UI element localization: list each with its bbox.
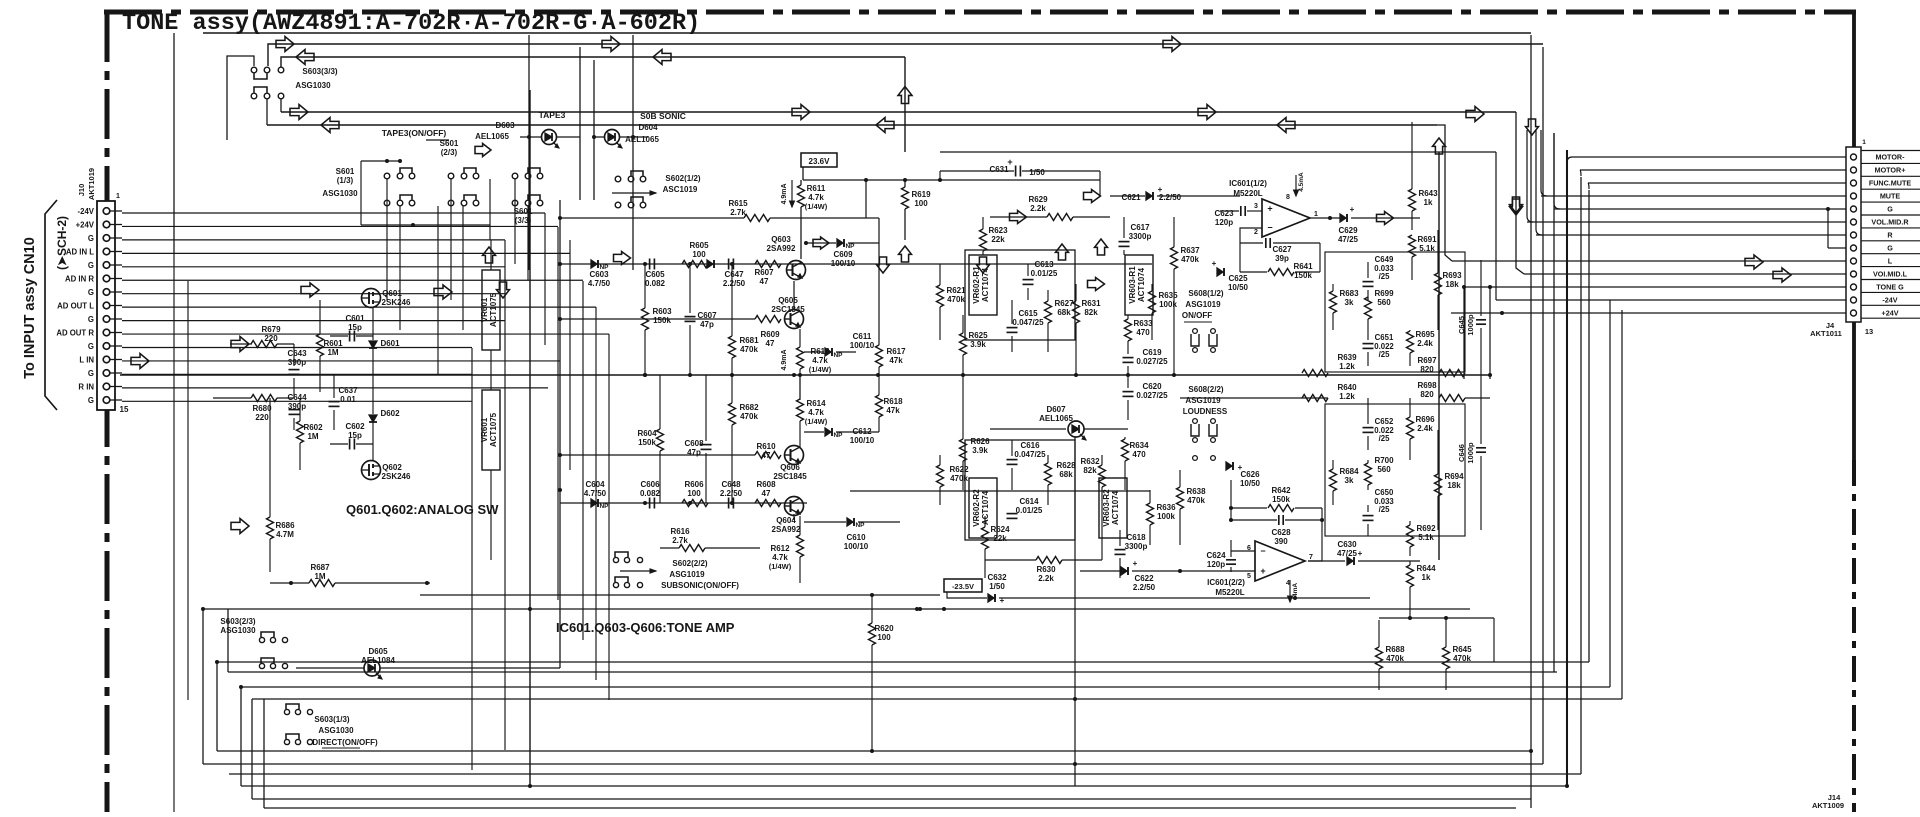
svg-text:NP: NP (845, 243, 855, 250)
svg-text:C627: C627 (1272, 245, 1292, 254)
svg-text:2SK246: 2SK246 (382, 298, 411, 307)
svg-text:-24V: -24V (1882, 296, 1897, 305)
svg-text:G: G (88, 234, 94, 243)
svg-text:R607: R607 (754, 268, 774, 277)
svg-text:47p: 47p (700, 320, 714, 329)
svg-text:R628: R628 (1056, 461, 1076, 470)
svg-text:VR601: VR601 (480, 417, 489, 442)
svg-text:R602: R602 (303, 423, 323, 432)
svg-text:VOL.MID.R: VOL.MID.R (1871, 218, 1909, 227)
svg-text:R644: R644 (1416, 564, 1436, 573)
svg-text:VR601: VR601 (480, 297, 489, 322)
svg-text:R688: R688 (1385, 645, 1405, 654)
svg-text:3.9k: 3.9k (972, 446, 988, 455)
svg-text:(2/3): (2/3) (441, 148, 458, 157)
svg-text:R686: R686 (275, 521, 295, 530)
svg-text:(1/4W): (1/4W) (809, 365, 832, 374)
svg-text:470k: 470k (1187, 496, 1205, 505)
svg-text:2.2k: 2.2k (1030, 204, 1046, 213)
svg-text:-24V: -24V (78, 207, 95, 216)
svg-text:-23.5V: -23.5V (952, 582, 974, 591)
svg-text:C621: C621 (1121, 193, 1141, 202)
svg-text:470k: 470k (947, 295, 965, 304)
svg-text:D603: D603 (495, 121, 515, 130)
svg-text:7: 7 (1309, 554, 1313, 561)
svg-text:1.2k: 1.2k (1339, 392, 1355, 401)
svg-text:R609: R609 (760, 330, 780, 339)
svg-text:390: 390 (1274, 537, 1288, 546)
svg-text:(1/3): (1/3) (337, 176, 354, 185)
svg-text:220: 220 (255, 413, 269, 422)
svg-text:R625: R625 (968, 331, 988, 340)
svg-text:/25: /25 (1379, 434, 1391, 443)
svg-text:470k: 470k (740, 345, 758, 354)
svg-text:G: G (88, 315, 94, 324)
svg-text:C630: C630 (1337, 540, 1357, 549)
svg-text:R617: R617 (886, 347, 906, 356)
svg-text:IC601(1/2): IC601(1/2) (1229, 179, 1267, 188)
svg-text:R642: R642 (1271, 486, 1291, 495)
svg-text:ACT1074: ACT1074 (1111, 490, 1120, 525)
svg-text:3k: 3k (1345, 298, 1354, 307)
svg-text:VOI.MID.L: VOI.MID.L (1873, 270, 1908, 279)
svg-text:ASG1030: ASG1030 (322, 189, 358, 198)
svg-text:R679: R679 (261, 325, 281, 334)
svg-text:C602: C602 (345, 422, 365, 431)
svg-text:470k: 470k (740, 412, 758, 421)
svg-text:C609: C609 (833, 250, 853, 259)
svg-text:100k: 100k (1159, 300, 1177, 309)
svg-text:R635: R635 (1158, 291, 1178, 300)
svg-text:10/50: 10/50 (1240, 479, 1261, 488)
svg-text:82k: 82k (1083, 466, 1097, 475)
svg-text:2.2k: 2.2k (1038, 574, 1054, 583)
svg-text:C607: C607 (697, 311, 717, 320)
svg-text:1000p: 1000p (1466, 442, 1475, 464)
svg-text:2SA992: 2SA992 (772, 525, 801, 534)
svg-text:MOTOR+: MOTOR+ (1875, 166, 1906, 175)
svg-text:4.7/50: 4.7/50 (588, 279, 611, 288)
svg-text:C611: C611 (853, 332, 872, 341)
svg-text:0.027/25: 0.027/25 (1136, 391, 1168, 400)
svg-text:R683: R683 (1339, 289, 1359, 298)
svg-text:MOTOR-: MOTOR- (1875, 153, 1905, 162)
svg-text:Q606: Q606 (780, 463, 800, 472)
svg-text:C610: C610 (846, 533, 866, 542)
svg-text:68k: 68k (1059, 470, 1073, 479)
svg-text:R626: R626 (970, 437, 990, 446)
svg-text:470: 470 (1136, 328, 1150, 337)
svg-text:39p: 39p (1275, 254, 1289, 263)
svg-text:10/50: 10/50 (1228, 283, 1249, 292)
svg-text:47k: 47k (886, 406, 900, 415)
svg-text:0.082: 0.082 (645, 279, 666, 288)
svg-text:120p: 120p (1207, 560, 1225, 569)
svg-text:4.7/50: 4.7/50 (584, 489, 607, 498)
svg-text:AEL1065: AEL1065 (625, 135, 659, 144)
svg-text:4.7k: 4.7k (808, 408, 824, 417)
svg-text:(1/4W): (1/4W) (805, 417, 828, 426)
svg-text:AKT1019: AKT1019 (87, 168, 96, 200)
svg-text:C608: C608 (684, 439, 704, 448)
svg-text:ASG1030: ASG1030 (318, 726, 354, 735)
svg-text:0.027/25: 0.027/25 (1136, 357, 1168, 366)
svg-text:L: L (1888, 257, 1893, 266)
svg-text:D605: D605 (368, 647, 388, 656)
svg-text:2.2/50: 2.2/50 (720, 489, 743, 498)
svg-text:R603: R603 (652, 307, 672, 316)
svg-text:2SC1845: 2SC1845 (771, 305, 805, 314)
svg-text:+: + (1350, 205, 1355, 214)
svg-text:C604: C604 (585, 480, 605, 489)
svg-text:Q605: Q605 (778, 296, 798, 305)
svg-text:1: 1 (1862, 139, 1866, 146)
svg-text:ASC1019: ASC1019 (663, 185, 698, 194)
svg-text:AD IN R: AD IN R (65, 274, 94, 283)
svg-text:NP: NP (833, 432, 843, 439)
svg-text:R697: R697 (1417, 356, 1437, 365)
svg-text:DIRECT(ON/OFF): DIRECT(ON/OFF) (312, 738, 378, 747)
svg-text:18k: 18k (1445, 280, 1459, 289)
svg-text:R641: R641 (1293, 262, 1313, 271)
svg-text:R640: R640 (1337, 383, 1357, 392)
svg-text:SUBSONIC(ON/OFF): SUBSONIC(ON/OFF) (661, 581, 739, 590)
svg-text:100/10: 100/10 (850, 341, 875, 350)
svg-text:R687: R687 (310, 563, 330, 572)
svg-text:C628: C628 (1271, 528, 1291, 537)
svg-text:R696: R696 (1415, 415, 1435, 424)
svg-text:22k: 22k (993, 534, 1007, 543)
svg-text:2SA992: 2SA992 (767, 244, 796, 253)
svg-text:R618: R618 (883, 397, 903, 406)
svg-text:0.047/25: 0.047/25 (1012, 318, 1044, 327)
svg-text:47: 47 (760, 277, 769, 286)
svg-text:470k: 470k (950, 474, 968, 483)
svg-text:ASG1019: ASG1019 (1185, 396, 1221, 405)
svg-text:VR603-R1: VR603-R1 (1128, 266, 1137, 304)
svg-text:/25: /25 (1379, 272, 1391, 281)
svg-text:R620: R620 (874, 624, 894, 633)
svg-text:TAPE3: TAPE3 (539, 110, 566, 120)
svg-text:5: 5 (1247, 573, 1251, 580)
svg-text:4.5mA: 4.5mA (1298, 172, 1305, 192)
svg-text:23.6V: 23.6V (809, 157, 831, 166)
svg-text:Q602: Q602 (382, 463, 402, 472)
svg-text:820: 820 (1420, 365, 1434, 374)
svg-text:G: G (88, 369, 94, 378)
svg-text:ASG1019: ASG1019 (1185, 300, 1221, 309)
svg-text:C650: C650 (1375, 488, 1394, 497)
svg-text:C624: C624 (1206, 551, 1226, 560)
svg-text:C603: C603 (589, 270, 609, 279)
svg-text:+: + (1133, 559, 1138, 568)
svg-text:1M: 1M (327, 348, 338, 357)
svg-text:150k: 150k (638, 438, 656, 447)
svg-text:R622: R622 (949, 465, 969, 474)
svg-text:C643: C643 (287, 349, 307, 358)
svg-text:R643: R643 (1418, 189, 1438, 198)
svg-text:0.047/25: 0.047/25 (1014, 450, 1046, 459)
svg-text:AD IN L: AD IN L (66, 247, 94, 256)
svg-text:To INPUT assy CN10: To INPUT assy CN10 (22, 237, 38, 379)
svg-text:(1/4W): (1/4W) (805, 202, 828, 211)
svg-text:+24V: +24V (76, 220, 95, 229)
svg-text:AKT1009: AKT1009 (1812, 801, 1844, 810)
svg-text:R634: R634 (1129, 441, 1149, 450)
svg-text:AKT1011: AKT1011 (1810, 329, 1842, 338)
svg-text:2.2/50: 2.2/50 (1159, 193, 1182, 202)
svg-text:M5220L: M5220L (1215, 588, 1244, 597)
svg-text:R692: R692 (1416, 524, 1436, 533)
svg-text:2: 2 (1254, 229, 1258, 236)
svg-text:S602(1/2): S602(1/2) (665, 174, 700, 183)
svg-text:R632: R632 (1080, 457, 1100, 466)
svg-text:R680: R680 (252, 404, 272, 413)
svg-text:R612: R612 (770, 544, 790, 553)
svg-text:R610: R610 (756, 442, 776, 451)
svg-text:NP: NP (833, 352, 843, 359)
svg-text:68k: 68k (1057, 308, 1071, 317)
svg-text:1/50: 1/50 (989, 582, 1005, 591)
svg-text:47: 47 (762, 489, 771, 498)
svg-text:VR602-R1: VR602-R1 (972, 266, 981, 304)
svg-text:R605: R605 (689, 241, 709, 250)
svg-text:0.01: 0.01 (340, 395, 356, 404)
svg-text:R616: R616 (670, 527, 690, 536)
svg-text:MUTE: MUTE (1880, 192, 1901, 201)
svg-text:4.7k: 4.7k (772, 553, 788, 562)
svg-text:2SK246: 2SK246 (382, 472, 411, 481)
svg-text:C606: C606 (640, 480, 660, 489)
svg-text:R633: R633 (1133, 319, 1153, 328)
svg-text:S601: S601 (336, 167, 355, 176)
svg-text:G: G (88, 261, 94, 270)
svg-text:C647: C647 (724, 270, 744, 279)
svg-text:R637: R637 (1180, 246, 1200, 255)
svg-text:R630: R630 (1036, 565, 1056, 574)
svg-text:100: 100 (687, 489, 701, 498)
svg-text:NP: NP (599, 503, 609, 510)
svg-text:C625: C625 (1228, 274, 1248, 283)
svg-text:D607: D607 (1046, 405, 1066, 414)
svg-text:−: − (1267, 223, 1272, 233)
svg-text:G: G (88, 342, 94, 351)
svg-text:C618: C618 (1126, 533, 1146, 542)
svg-text:13: 13 (1865, 327, 1873, 336)
svg-text:1000p: 1000p (1466, 314, 1475, 336)
svg-text:C631: C631 (989, 165, 1009, 174)
svg-text:R601: R601 (323, 339, 343, 348)
svg-text:+: + (1007, 157, 1012, 167)
svg-text:+: + (1158, 185, 1163, 194)
svg-text:G: G (1887, 205, 1893, 214)
svg-text:100: 100 (914, 199, 928, 208)
svg-text:R684: R684 (1339, 467, 1359, 476)
svg-text:AEL1065: AEL1065 (1039, 414, 1073, 423)
svg-text:120p: 120p (1215, 218, 1233, 227)
svg-text:R627: R627 (1054, 299, 1074, 308)
svg-text:4.7k: 4.7k (812, 356, 828, 365)
svg-text:R619: R619 (911, 190, 931, 199)
svg-text:/25: /25 (1379, 350, 1391, 359)
svg-text:3: 3 (1254, 203, 1258, 210)
svg-text:S602(2/2): S602(2/2) (672, 559, 707, 568)
svg-text:4.7k: 4.7k (808, 193, 824, 202)
svg-text:M5220L: M5220L (1233, 189, 1262, 198)
svg-text:AD OUT R: AD OUT R (56, 328, 94, 337)
svg-text:100: 100 (877, 633, 891, 642)
svg-text:4.7M: 4.7M (276, 530, 294, 539)
svg-text:C632: C632 (987, 573, 1007, 582)
svg-text:C615: C615 (1018, 309, 1038, 318)
svg-text:ASG1030: ASG1030 (295, 81, 331, 90)
svg-text:C620: C620 (1142, 382, 1162, 391)
svg-text:R639: R639 (1337, 353, 1357, 362)
svg-text:47k: 47k (889, 356, 903, 365)
svg-text:AD OUT L: AD OUT L (57, 301, 94, 310)
svg-text:5.1k: 5.1k (1418, 533, 1434, 542)
svg-text:C619: C619 (1142, 348, 1162, 357)
svg-text:R629: R629 (1028, 195, 1048, 204)
svg-text:1/50: 1/50 (1029, 168, 1045, 177)
svg-text:R645: R645 (1452, 645, 1472, 654)
svg-text:+: + (1212, 259, 1217, 268)
svg-text:TAPE3(ON/OFF): TAPE3(ON/OFF) (382, 128, 447, 138)
svg-text:C629: C629 (1338, 226, 1358, 235)
svg-text:R: R (1887, 231, 1893, 240)
svg-text:15: 15 (120, 405, 129, 414)
svg-text:100: 100 (692, 250, 706, 259)
svg-text:ACT1075: ACT1075 (489, 292, 498, 327)
svg-text:+24V: +24V (1882, 309, 1899, 318)
svg-text:100/10: 100/10 (831, 259, 856, 268)
svg-text:C652: C652 (1375, 417, 1394, 426)
svg-text:IC601.Q603-Q606:TONE AMP: IC601.Q603-Q606:TONE AMP (556, 620, 735, 635)
svg-text:47/25: 47/25 (1338, 235, 1359, 244)
svg-text:LOUDNESS: LOUDNESS (1183, 407, 1228, 416)
svg-text:J10: J10 (77, 184, 86, 197)
svg-text:R700: R700 (1374, 456, 1394, 465)
svg-text:+: + (1260, 566, 1265, 576)
svg-text:100/10: 100/10 (850, 436, 875, 445)
svg-text:1k: 1k (1424, 198, 1433, 207)
svg-text:R693: R693 (1442, 271, 1462, 280)
svg-text:C601: C601 (345, 314, 365, 323)
svg-text:82k: 82k (1084, 308, 1098, 317)
svg-text:R694: R694 (1444, 472, 1464, 481)
svg-text:R606: R606 (684, 480, 704, 489)
svg-text:4.9mA: 4.9mA (781, 183, 788, 204)
svg-text:ASG1030: ASG1030 (220, 626, 256, 635)
svg-text:R695: R695 (1415, 330, 1435, 339)
svg-text:G: G (88, 288, 94, 297)
svg-text:C637: C637 (338, 386, 358, 395)
svg-text:ACT1075: ACT1075 (489, 412, 498, 447)
svg-text:ASG1019: ASG1019 (669, 570, 705, 579)
svg-text:C613: C613 (1034, 260, 1054, 269)
svg-text:820: 820 (1420, 390, 1434, 399)
svg-text:3300p: 3300p (1129, 232, 1152, 241)
svg-text:C648: C648 (721, 480, 741, 489)
svg-text:R699: R699 (1374, 289, 1394, 298)
svg-text:R691: R691 (1417, 235, 1437, 244)
svg-text:R623: R623 (988, 226, 1008, 235)
svg-text:1: 1 (116, 193, 120, 200)
svg-text:R608: R608 (756, 480, 776, 489)
svg-text:R631: R631 (1081, 299, 1101, 308)
svg-text:D604: D604 (638, 123, 658, 132)
svg-text:1M: 1M (307, 432, 318, 441)
svg-text:2.2/50: 2.2/50 (1133, 583, 1156, 592)
svg-text:VR603-R2: VR603-R2 (1102, 489, 1111, 527)
svg-text:S608(1/2): S608(1/2) (1188, 289, 1223, 298)
svg-text:390p: 390p (288, 358, 306, 367)
svg-text:1: 1 (1314, 211, 1318, 218)
svg-text:150k: 150k (653, 316, 671, 325)
svg-text:ACT1074: ACT1074 (1137, 267, 1146, 302)
svg-text:C616: C616 (1020, 441, 1040, 450)
svg-text:150k: 150k (1272, 495, 1290, 504)
svg-text:Q601.Q602:ANALOG SW: Q601.Q602:ANALOG SW (346, 502, 499, 517)
svg-text:0.01/25: 0.01/25 (1031, 269, 1058, 278)
svg-text:(3/3): (3/3) (515, 216, 532, 225)
svg-text:R614: R614 (806, 399, 826, 408)
svg-text:AEL1065: AEL1065 (475, 132, 509, 141)
svg-text:4.9mA: 4.9mA (781, 349, 788, 370)
svg-text:18k: 18k (1447, 481, 1461, 490)
svg-text:C617: C617 (1130, 223, 1150, 232)
svg-text:Q603: Q603 (771, 235, 791, 244)
svg-text:8: 8 (1286, 194, 1290, 201)
svg-text:2SC1845: 2SC1845 (773, 472, 807, 481)
svg-text:3300p: 3300p (1125, 542, 1148, 551)
svg-text:R615: R615 (728, 199, 748, 208)
svg-text:R681: R681 (739, 336, 759, 345)
svg-text:22k: 22k (991, 235, 1005, 244)
svg-text:−: − (1260, 546, 1265, 556)
svg-text:C623: C623 (1214, 209, 1234, 218)
svg-text:47p: 47p (687, 448, 701, 457)
svg-text:560: 560 (1377, 465, 1391, 474)
svg-text:2.4k: 2.4k (1417, 424, 1433, 433)
svg-text:FUNC.MUTE: FUNC.MUTE (1869, 179, 1912, 188)
svg-text:Q601: Q601 (382, 289, 402, 298)
svg-text:S0B SONIC: S0B SONIC (640, 111, 686, 121)
svg-text:3k: 3k (1345, 476, 1354, 485)
svg-text:(1/4W): (1/4W) (769, 562, 792, 571)
svg-text:3.9k: 3.9k (970, 340, 986, 349)
svg-text:S603(3/3): S603(3/3) (302, 67, 337, 76)
svg-text:/25: /25 (1379, 505, 1391, 514)
svg-text:1.2k: 1.2k (1339, 362, 1355, 371)
svg-text:S608(2/2): S608(2/2) (1188, 385, 1223, 394)
svg-text:R698: R698 (1417, 381, 1437, 390)
svg-text:+: + (1000, 596, 1005, 605)
svg-text:R621: R621 (946, 286, 966, 295)
svg-text:R682: R682 (739, 403, 759, 412)
svg-text:560: 560 (1377, 298, 1391, 307)
svg-text:+: + (1238, 463, 1243, 472)
svg-text:VR602-R2: VR602-R2 (972, 489, 981, 527)
svg-text:2.4k: 2.4k (1417, 339, 1433, 348)
svg-text:100/10: 100/10 (844, 542, 869, 551)
svg-text:C612: C612 (852, 427, 872, 436)
svg-text:S603(1/3): S603(1/3) (314, 715, 349, 724)
svg-text:100k: 100k (1157, 512, 1175, 521)
svg-text:470: 470 (1132, 450, 1146, 459)
svg-text:IC601(2/2): IC601(2/2) (1207, 578, 1245, 587)
svg-text:0.01/25: 0.01/25 (1016, 506, 1043, 515)
